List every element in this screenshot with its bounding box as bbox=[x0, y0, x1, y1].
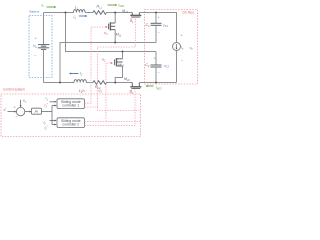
svg-text:–: – bbox=[158, 70, 160, 74]
svg-text:+: + bbox=[35, 36, 37, 40]
svg-text:Control system: Control system bbox=[3, 88, 25, 92]
svg-text:–: – bbox=[34, 54, 36, 58]
svg-text:–: – bbox=[158, 30, 160, 34]
svg-text:+: + bbox=[154, 57, 156, 61]
svg-text:+: + bbox=[181, 33, 183, 37]
svg-text:–: – bbox=[181, 58, 183, 62]
svg-text:Battery: Battery bbox=[30, 10, 40, 14]
svg-text:controller 2: controller 2 bbox=[62, 123, 79, 127]
svg-text:+: + bbox=[14, 106, 16, 110]
svg-text:DC Bus: DC Bus bbox=[183, 10, 195, 14]
svg-text:PI: PI bbox=[35, 110, 38, 114]
svg-text:+: + bbox=[158, 16, 160, 20]
svg-text:controller 1: controller 1 bbox=[62, 104, 79, 108]
